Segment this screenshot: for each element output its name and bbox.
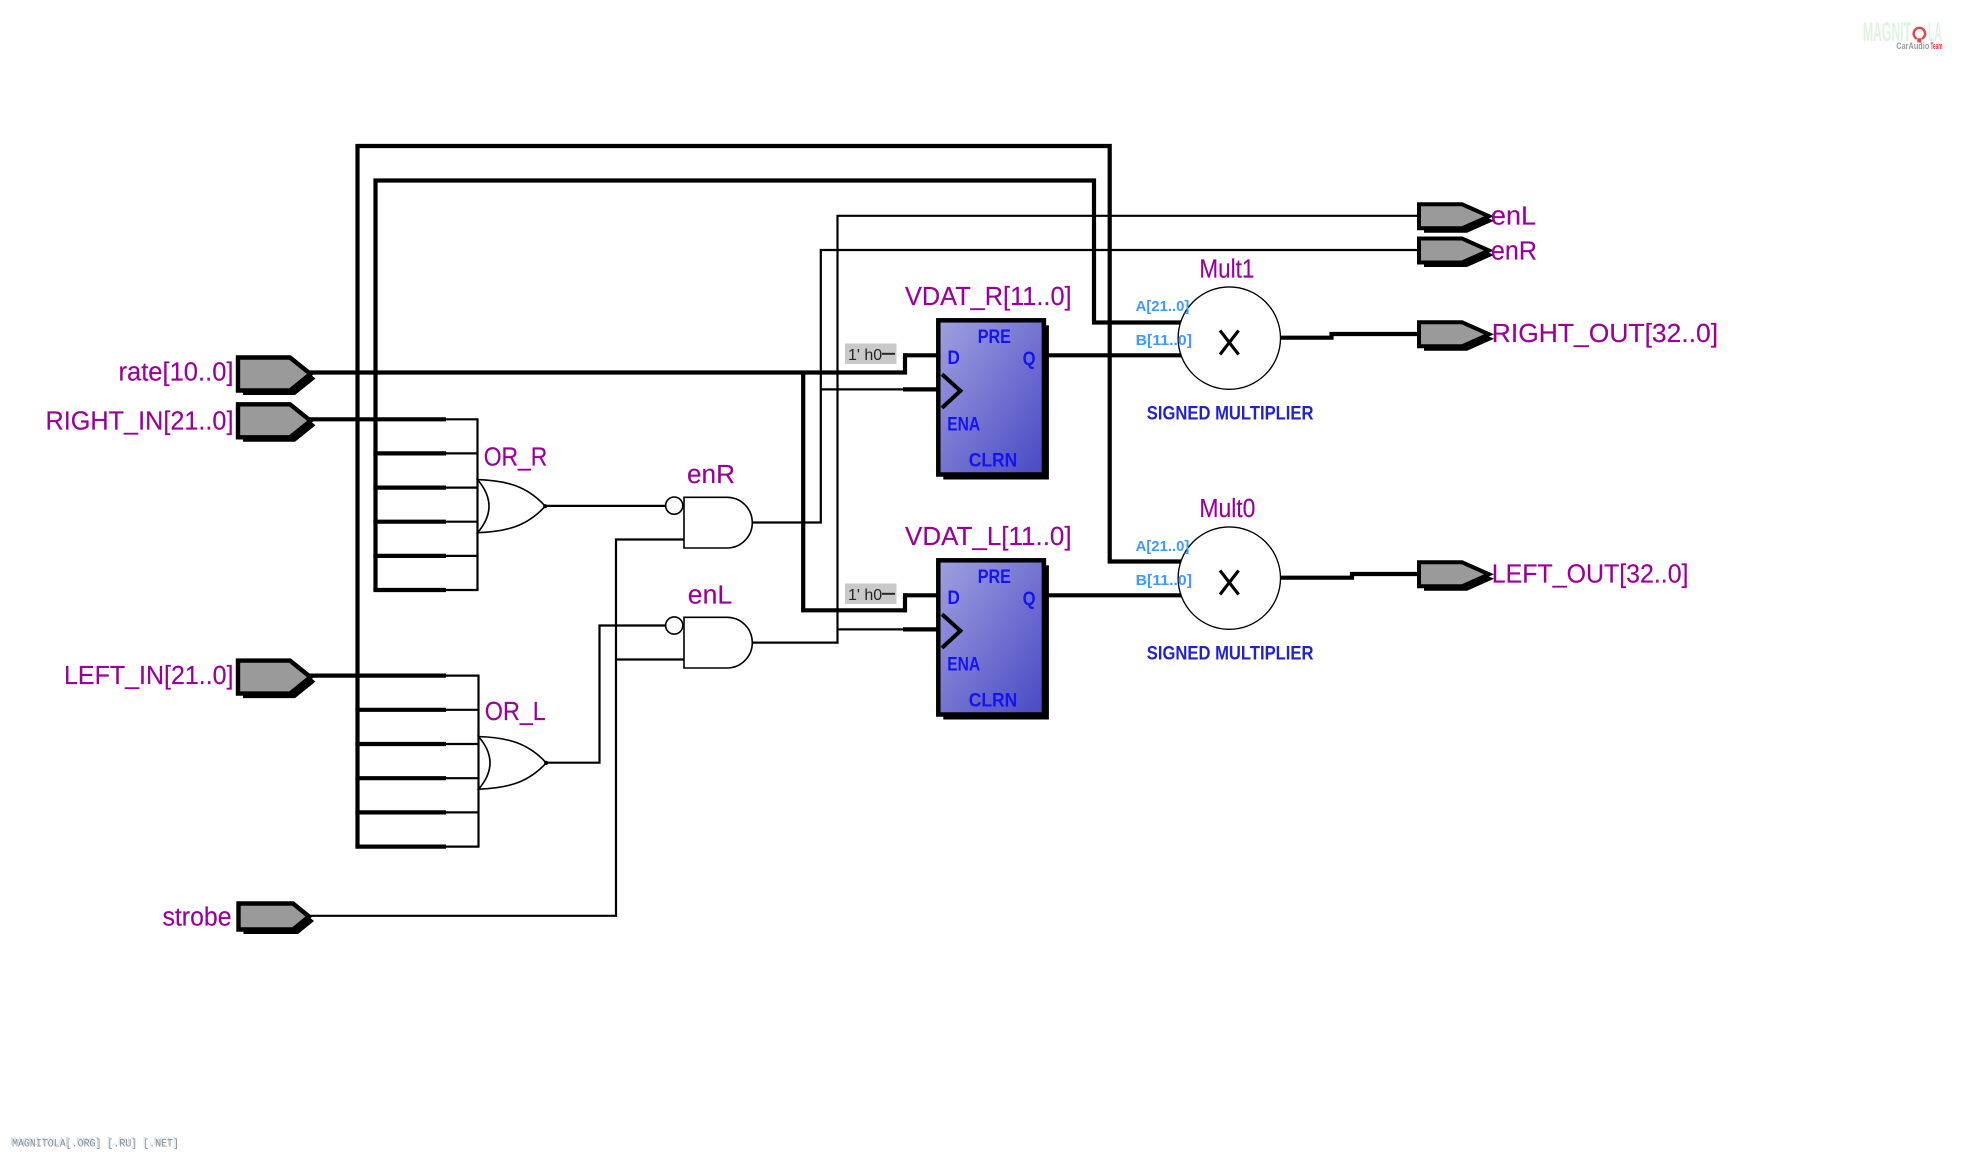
wire LEFT_IN bus row from port [304, 673, 446, 677]
wire VDAT_R Q to Mult1 B input [1042, 353, 1183, 357]
wire OR_R input side vertical [476, 419, 478, 590]
svg-text:enL: enL [1491, 203, 1536, 231]
clock triangle VDAT_R [942, 374, 960, 408]
wire OR_L comb bus row 5 [355, 810, 446, 814]
wire strobe to enR AND lower input [305, 540, 684, 916]
svg-text:LEFT_OUT[32..0]: LEFT_OUT[32..0] [1492, 561, 1689, 589]
svg-text:enR: enR [687, 461, 735, 489]
OR gate OR_R [478, 480, 548, 533]
wire rate bus vertical branch down to VDAT_L [801, 371, 805, 613]
wire OR_R input bit stub 3 [446, 487, 479, 489]
wire VDAT_R D input stub [903, 353, 940, 357]
wire OR_L output up to enL AND bubble [546, 626, 667, 763]
wire OR_L input bit stub 1 [446, 674, 480, 676]
wire LEFT_IN bus spine up, across top, down to Mult0 A input [358, 146, 1184, 847]
wire OR_L input side vertical [477, 676, 479, 847]
footer site text [11, 1137, 180, 1151]
svg-text:D: D [948, 588, 960, 609]
constant 1-h0 label for VDAT_R D [845, 344, 897, 365]
svg-text:ENA: ENA [947, 414, 980, 435]
wire OR_R input bit stub 6 [446, 589, 479, 591]
wire OR_R input bit stub 1 [446, 418, 479, 420]
wire OR_R output to enR AND bubble [544, 505, 666, 507]
svg-text:B[11..0]: B[11..0] [1136, 572, 1192, 589]
wire OR_L comb bus row 4 [355, 776, 446, 780]
wire OR_R comb bus row 6 [373, 588, 446, 592]
wire enL branch to VDAT_L clock [838, 628, 905, 630]
svg-text:Q: Q [1023, 349, 1036, 370]
clock triangle VDAT_L [942, 614, 960, 648]
svg-text:enL: enL [688, 582, 732, 610]
AND gate enR with inverted input [666, 497, 753, 548]
wire VDAT_R clock input stub [903, 387, 940, 391]
svg-text:CarAudio: CarAudio [1896, 41, 1929, 51]
svg-text:SIGNED MULTIPLIER: SIGNED MULTIPLIER [1147, 644, 1314, 665]
wire OR_L input bit stub 4 [446, 777, 480, 779]
svg-text:D: D [948, 348, 960, 369]
wire VDAT_L Q to Mult0 B input [1042, 593, 1183, 597]
wire rate bus horizontal from rate port [304, 370, 907, 374]
wire OR_R input bit stub 5 [446, 555, 479, 557]
svg-text:SIGNED MULTIPLIER: SIGNED MULTIPLIER [1147, 404, 1314, 425]
register VDAT_R[11..0] (DFF with enable) [938, 320, 1049, 479]
svg-text:PRE: PRE [978, 567, 1011, 588]
svg-text:Team: Team [1931, 41, 1943, 51]
wire OR_L comb bus row 2 [355, 708, 446, 712]
wire OR_L input bit stub 6 [446, 845, 480, 847]
svg-text:1' h0: 1' h0 [848, 347, 882, 364]
wire OR_L comb bus row 6 [355, 844, 446, 848]
AND gate enL with inverted input [666, 617, 753, 668]
svg-text:Mult0: Mult0 [1199, 495, 1255, 523]
wire strobe branch to enL AND lower input [616, 658, 684, 660]
svg-text:PRE: PRE [978, 327, 1011, 348]
wire Mult1 output to RIGHT_OUT port [1279, 334, 1418, 338]
svg-text:A[21..0]: A[21..0] [1136, 538, 1190, 555]
input port RIGHT_IN[21..0] [238, 404, 316, 442]
svg-text:OR_L: OR_L [485, 698, 546, 726]
svg-text:Mult1: Mult1 [1199, 256, 1254, 284]
svg-text:CLRN: CLRN [969, 691, 1018, 712]
svg-text:OR_R: OR_R [484, 444, 548, 472]
output port RIGHT_OUT[32..0] [1419, 322, 1494, 351]
wire enL AND output up and across to enL output port [752, 216, 1419, 643]
wire enR AND output up and across to enR output port [752, 250, 1419, 523]
svg-text:Q: Q [1023, 589, 1036, 610]
input port rate[10..0] [238, 358, 316, 396]
svg-text:1' h0: 1' h0 [848, 587, 882, 604]
wire OR_R input bit stub 2 [446, 452, 479, 454]
svg-text:CLRN: CLRN [969, 451, 1018, 472]
wire riser into VDAT_L D [903, 593, 907, 612]
svg-text:LEFT_IN[21..0]: LEFT_IN[21..0] [64, 662, 234, 690]
wire Mult0 output to LEFT_OUT port [1279, 574, 1417, 578]
register VDAT_L[11..0] (DFF with enable) [938, 560, 1049, 719]
multiplier Mult1 (signed multiplier) [1178, 287, 1280, 389]
multiplier Mult0 (signed multiplier) [1178, 527, 1280, 629]
constant 1-h0 label for VDAT_L D [845, 584, 897, 605]
wire riser into VDAT_R D [903, 353, 907, 374]
svg-text:B[11..0]: B[11..0] [1136, 332, 1192, 349]
wire VDAT_L D input stub [903, 593, 940, 597]
svg-text:VDAT_L[11..0]: VDAT_L[11..0] [905, 523, 1072, 551]
output port enR [1419, 239, 1494, 268]
output port LEFT_OUT[32..0] [1419, 562, 1494, 591]
svg-text:MAGNITOLA[.ORG] [.RU] [.NET]: MAGNITOLA[.ORG] [.RU] [.NET] [12, 1139, 179, 1151]
OR gate OR_L [479, 737, 549, 790]
wire OR_L comb bus row 3 [355, 742, 446, 746]
wire OR_L input bit stub 2 [446, 709, 480, 711]
wire OR_R comb bus row 5 [373, 554, 446, 558]
wire OR_L input bit stub 3 [446, 743, 480, 745]
input port strobe [239, 904, 315, 935]
wire OR_R comb bus row 2 [373, 451, 446, 455]
wire RIGHT_IN bus spine up, across, down to Mult1 A input [376, 181, 1184, 591]
wire enR branch to VDAT_R clock [821, 388, 905, 390]
wire rate bus horizontal to VDAT_L D riser [801, 608, 907, 612]
svg-text:A[21..0]: A[21..0] [1136, 298, 1190, 315]
wire OR_L input bit stub 5 [446, 811, 480, 813]
svg-text:enR: enR [1491, 238, 1537, 266]
svg-text:RIGHT_IN[21..0]: RIGHT_IN[21..0] [46, 408, 234, 436]
svg-text:rate[10..0]: rate[10..0] [119, 359, 234, 387]
wire RIGHT_IN bus row from port [304, 417, 446, 421]
svg-text:VDAT_R[11..0]: VDAT_R[11..0] [905, 283, 1072, 311]
wire OR_R comb bus row 4 [373, 520, 446, 524]
input port LEFT_IN[21..0] [238, 661, 316, 699]
svg-text:RIGHT_OUT[32..0]: RIGHT_OUT[32..0] [1492, 320, 1718, 348]
wire OR_R input bit stub 4 [446, 521, 479, 523]
wire OR_R comb bus row 3 [373, 486, 446, 490]
watermark logo MAGNITOLA CarAudio Team [1863, 17, 1943, 51]
svg-text:strobe: strobe [163, 904, 232, 932]
output port enL [1419, 204, 1494, 233]
wire VDAT_L clock input stub [903, 627, 940, 631]
svg-text:ENA: ENA [947, 654, 980, 675]
